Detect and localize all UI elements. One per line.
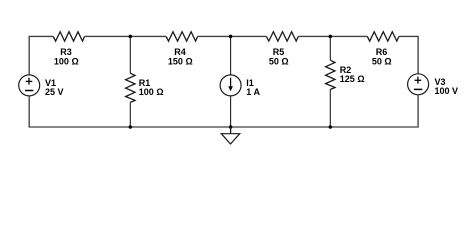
wire: R2 down to bottom node F xyxy=(329,90,331,128)
voltage source V1 xyxy=(19,75,64,97)
junction node A xyxy=(129,35,133,39)
wire: I1 down to bottom node E xyxy=(230,96,232,127)
svg-text:150 Ω: 150 Ω xyxy=(168,56,193,66)
wire: node B to R5 xyxy=(231,35,267,37)
wire: node C to R6 xyxy=(330,35,367,37)
wire: V3 down to bottom-right corner xyxy=(330,95,418,127)
wire: node A to R4 xyxy=(130,35,166,37)
junction node E xyxy=(229,125,233,129)
wire: R5 to node C xyxy=(298,35,330,37)
svg-text:100 V: 100 V xyxy=(435,86,459,96)
resistor R5 xyxy=(266,32,298,67)
current source I1 xyxy=(220,75,260,97)
svg-text:R5: R5 xyxy=(273,47,285,57)
svg-text:R3: R3 xyxy=(60,47,72,57)
junction node D xyxy=(129,125,133,129)
resistor R4 xyxy=(166,32,198,67)
junction node F xyxy=(329,125,333,129)
junction node B xyxy=(229,35,233,39)
svg-text:100 Ω: 100 Ω xyxy=(139,87,164,97)
wire: bottom rail node E to node F xyxy=(231,126,331,128)
svg-text:25 V: 25 V xyxy=(45,87,64,97)
svg-text:50 Ω: 50 Ω xyxy=(372,56,392,66)
wire: node A down to R1 xyxy=(129,36,131,73)
wire: bottom rail node D to node E xyxy=(130,126,230,128)
svg-text:R4: R4 xyxy=(174,47,186,57)
svg-text:1 A: 1 A xyxy=(246,87,260,97)
wire: R3 to node A xyxy=(85,35,131,37)
resistor R1 xyxy=(126,73,164,102)
resistor R3 xyxy=(53,32,84,67)
resistor R6 xyxy=(367,32,399,67)
wire: V1 down to bottom-left corner xyxy=(29,96,130,127)
wire: R6 to top-right corner down to V3 xyxy=(399,36,418,73)
wire: top-left corner from V1 up to R3 xyxy=(29,36,53,75)
junction node C xyxy=(329,35,333,39)
voltage source V3 xyxy=(408,74,458,96)
wire: node C down to R2 xyxy=(329,36,331,60)
svg-text:100 Ω: 100 Ω xyxy=(54,56,79,66)
wire: R1 down to bottom node D xyxy=(129,102,131,127)
resistor R2 xyxy=(326,60,365,89)
ground xyxy=(221,127,239,144)
svg-text:50 Ω: 50 Ω xyxy=(269,56,289,66)
svg-text:R6: R6 xyxy=(376,47,388,57)
svg-text:125 Ω: 125 Ω xyxy=(340,74,365,84)
wire: node B down to I1 xyxy=(230,36,232,75)
wire: R4 to node B xyxy=(198,35,231,37)
